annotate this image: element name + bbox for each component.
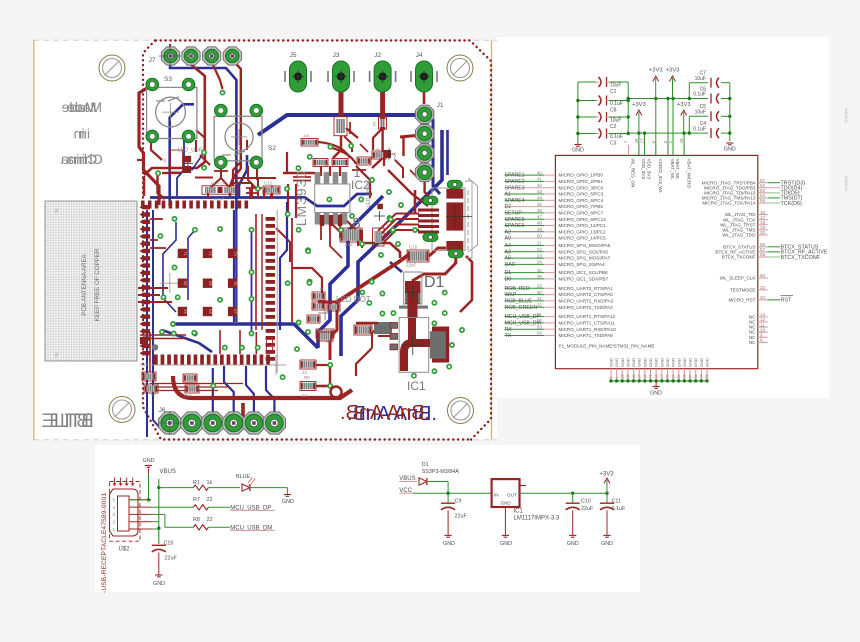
svg-text:GND: GND <box>601 541 613 547</box>
svg-text:0.1uF: 0.1uF <box>693 126 706 132</box>
wire red USB exit bundle <box>396 213 419 215</box>
svg-text:LM1117IMPX-3.3: LM1117IMPX-3.3 <box>514 516 560 522</box>
wire blue J1 inner <box>446 130 449 175</box>
svg-text:28: 28 <box>679 138 684 144</box>
capacitor bank right <box>688 83 690 99</box>
IC2 footprint <box>315 184 350 213</box>
svg-text:IC1: IC1 <box>407 379 426 393</box>
svg-text:MICRO_GPIO_6/PC4: MICRO_GPIO_6/PC4 <box>559 198 604 203</box>
IC1 footprint <box>432 327 449 363</box>
svg-text:SPARE6: SPARE6 <box>505 223 525 229</box>
pin 27 VDD_3V3 <box>644 145 646 155</box>
pin 31 RGB_BLUE <box>505 300 545 302</box>
svg-text:in: in <box>74 126 85 142</box>
capacitor C6 <box>689 98 708 100</box>
+3V3 supply arrows top <box>655 78 657 99</box>
svg-text:36: 36 <box>632 375 636 379</box>
wire red module bottom risers <box>219 330 221 354</box>
wire red left of IC2 <box>246 187 262 189</box>
svg-text:10uF: 10uF <box>695 76 706 82</box>
svg-text:C11: C11 <box>612 498 622 504</box>
wire red J7 pad4 down <box>233 60 241 169</box>
wire red middle drop <box>255 214 257 330</box>
pin 60 WL_SLEEP_CLK <box>758 277 768 279</box>
svg-text:22: 22 <box>537 247 543 252</box>
wire red J7 pad3 down <box>212 62 223 89</box>
svg-text:MICRO_UART2_TXD/PA2: MICRO_UART2_TXD/PA2 <box>559 305 614 310</box>
svg-text:C15: C15 <box>164 541 174 547</box>
svg-text:MICRO_GPIO_7/PB5: MICRO_GPIO_7/PB5 <box>559 204 604 209</box>
svg-text:S2: S2 <box>268 145 276 152</box>
svg-text:2: 2 <box>668 141 673 144</box>
svg-text:GND: GND <box>567 541 579 547</box>
svg-text:MICRO_GPIO_1/PB0: MICRO_GPIO_1/PB0 <box>559 173 604 178</box>
pin 40 SPARE1 <box>505 174 545 176</box>
diode D1 footprint <box>404 272 422 304</box>
wire blue S3 via run <box>170 104 194 206</box>
svg-text:44: 44 <box>537 196 543 201</box>
svg-text:C2: C2 <box>610 124 617 130</box>
svg-text:35: 35 <box>537 268 543 273</box>
svg-text:68: 68 <box>183 281 188 286</box>
pads J5 J3 J2 J4 <box>290 61 307 92</box>
pin 26 VDD_3V3 <box>638 145 640 155</box>
svg-text:42: 42 <box>537 183 543 188</box>
svg-text:MICRO_GPIO_12/PC1: MICRO_GPIO_12/PC1 <box>559 223 607 228</box>
svg-text:MICRO_GPIO_14/PC5: MICRO_GPIO_14/PC5 <box>559 236 607 241</box>
svg-text:GND: GND <box>614 358 619 367</box>
svg-text:20: 20 <box>760 230 766 235</box>
wire red C15 link <box>429 248 446 256</box>
mirrored silkscreen text bottom (blue layer) <box>347 403 437 425</box>
diode D1 <box>419 478 427 485</box>
pin 19 WL_JTAG_TMS <box>758 229 768 231</box>
svg-text:R7: R7 <box>193 497 200 503</box>
svg-text:0.1uF: 0.1uF <box>693 92 706 98</box>
svg-text:+3V3: +3V3 <box>666 68 680 74</box>
wire blue left pair <box>177 132 184 196</box>
pin 64 TX <box>505 335 545 337</box>
svg-text:MICRO_SPI1_SCK/PA5: MICRO_SPI1_SCK/PA5 <box>559 249 609 254</box>
svg-text:LM3930: LM3930 <box>293 170 309 227</box>
svg-text:1K: 1K <box>162 158 167 163</box>
svg-text:RGB_RED: RGB_RED <box>505 286 530 292</box>
wire red J3 to IC2 <box>333 136 341 158</box>
pin 44 SPARE4 <box>505 199 545 201</box>
PCB sheet frame yellow line left <box>33 40 35 440</box>
svg-text:47: 47 <box>660 375 664 379</box>
svg-text:4: 4 <box>615 377 619 379</box>
svg-text:MICRO_JTAG_TCK/PA14: MICRO_JTAG_TCK/PA14 <box>702 201 756 206</box>
svg-text:WL_JTAG_TDO: WL_JTAG_TDO <box>722 233 756 238</box>
svg-text:1: 1 <box>354 166 361 180</box>
PCB layout panel background <box>33 40 497 440</box>
pin 42 SPARE3 <box>505 187 545 189</box>
svg-text:MICRO_I2C1_SDA/PB7: MICRO_I2C1_SDA/PB7 <box>559 277 609 282</box>
pin 56 BTCX_STATUS <box>758 246 768 248</box>
wire red IC2 top-left pair <box>293 176 311 178</box>
svg-text:+3V3: +3V3 <box>649 68 663 74</box>
mounting hole H3 <box>109 397 135 423</box>
svg-text:TX: TX <box>505 333 512 339</box>
svg-text:40: 40 <box>537 170 543 175</box>
module bottom pad row <box>154 355 270 365</box>
svg-text:55: 55 <box>677 375 681 379</box>
svg-text:A5: A5 <box>505 256 511 262</box>
svg-text:D4(3V3): D4(3V3) <box>844 108 849 124</box>
svg-text:10uF: 10uF <box>183 393 193 398</box>
wire blue USB region diag <box>390 262 402 272</box>
svg-text:IC1: IC1 <box>514 509 524 515</box>
module outline <box>276 210 278 373</box>
svg-text:MICRO_UART1_RTS/PA12: MICRO_UART1_RTS/PA12 <box>559 314 616 319</box>
svg-text:27: 27 <box>640 138 645 144</box>
svg-text:67: 67 <box>233 309 238 314</box>
svg-text:DAC: DAC <box>505 262 516 268</box>
svg-text:C10: C10 <box>581 498 591 504</box>
bottom schematic panel background <box>95 445 640 592</box>
svg-text:VDDIO_3V3_WL: VDDIO_3V3_WL <box>658 159 663 194</box>
IC1 regulator <box>492 479 520 507</box>
svg-text:J4: J4 <box>416 52 423 59</box>
small components row <box>313 159 328 167</box>
connector J1 <box>415 105 433 123</box>
svg-text:MICRO_SPI1_MISO/PA6: MICRO_SPI1_MISO/PA6 <box>559 243 611 248</box>
pin 17 WL_JTAG_TCK <box>758 219 768 221</box>
wire red density zone A <box>195 140 197 152</box>
wire red right to IC1 <box>317 365 330 386</box>
svg-text:43: 43 <box>537 189 543 194</box>
svg-text:53: 53 <box>666 375 670 379</box>
pin 33 TESTMODE <box>758 289 768 291</box>
svg-text:MICRO_UART2_RXD/PA3: MICRO_UART2_RXD/PA3 <box>559 299 614 304</box>
svg-text:WL_SLEEP_CLK: WL_SLEEP_CLK <box>720 276 757 281</box>
pin 49 A2 <box>505 231 545 233</box>
wire red R8 links <box>316 364 330 366</box>
wire red usb to D1 <box>412 254 456 281</box>
svg-text:VBUS: VBUS <box>160 469 176 475</box>
pin 8 NC <box>758 341 768 343</box>
wire blue long diagonal 1 <box>341 130 442 356</box>
svg-text:MICRO_GPIO_8/PC7: MICRO_GPIO_8/PC7 <box>559 211 604 216</box>
svg-text:A1: A1 <box>505 192 511 198</box>
wire red right lower <box>460 256 472 312</box>
svg-text:22 uF: 22 uF <box>214 196 225 201</box>
svg-text:26: 26 <box>634 138 639 144</box>
svg-text:49: 49 <box>537 227 543 232</box>
PCB antenna keepout area <box>45 201 137 361</box>
module GND pins bottom <box>610 369 612 381</box>
capacitor bank left <box>577 82 579 142</box>
svg-text:MICRO_GPIO_9/PC13: MICRO_GPIO_9/PC13 <box>559 217 607 222</box>
capacitor C3 <box>578 133 596 135</box>
wire blue IC2 row <box>150 194 372 206</box>
USB receptacle dashed outline <box>110 482 140 542</box>
wire red module right cluster <box>292 268 322 294</box>
svg-text:LED_USR1: LED_USR1 <box>366 181 372 207</box>
+3V3 arrow right <box>683 112 685 133</box>
wire red top of IC2 region <box>263 190 265 199</box>
svg-text:R1: R1 <box>193 480 200 486</box>
svg-text:10uF: 10uF <box>610 83 621 89</box>
wire red bottom thin pair <box>140 334 186 336</box>
wire blue bottom left long <box>153 210 162 430</box>
capacitor C5 <box>689 115 708 117</box>
svg-text:J7: J7 <box>149 57 156 64</box>
svg-text:R8: R8 <box>304 375 310 380</box>
svg-text:GND: GND <box>500 541 512 547</box>
svg-text:22uF: 22uF <box>165 556 178 562</box>
USB shield ticks <box>114 478 116 486</box>
svg-text:GND: GND <box>693 358 698 367</box>
OUT rail <box>520 492 608 494</box>
wire red upper S2 link <box>221 160 230 196</box>
capacitor C15 footprint <box>407 250 429 262</box>
svg-text:75: 75 <box>54 352 59 357</box>
svg-text:23: 23 <box>537 253 543 258</box>
svg-text:47: 47 <box>537 214 543 219</box>
svg-text:MICRO_GPIO_2/PB1: MICRO_GPIO_2/PB1 <box>559 179 604 184</box>
pin 45 D2 <box>505 206 545 208</box>
capacitor C2 <box>578 116 596 118</box>
svg-text:D0: D0 <box>505 277 512 283</box>
svg-text:C12: C12 <box>264 181 273 186</box>
wire red mid-right diagonals <box>372 130 383 168</box>
svg-text:54: 54 <box>671 375 675 379</box>
pin 48 SPARE6 <box>505 225 545 227</box>
USB connector footprint <box>432 188 465 250</box>
svg-text:7: 7 <box>624 141 629 144</box>
wire blue J6 risers <box>212 368 214 423</box>
svg-text:76: 76 <box>54 208 59 213</box>
wire red thick diagonal to module <box>337 253 411 302</box>
svg-text:BTCX_TXCONF: BTCX_TXCONF <box>781 255 821 261</box>
svg-text:22: 22 <box>207 497 213 503</box>
svg-text:GND: GND <box>631 358 636 367</box>
R8 row <box>151 513 165 515</box>
wire red J7 pad1 riser <box>169 44 171 50</box>
svg-text:GND: GND <box>609 358 614 367</box>
capacitor C8 <box>578 100 596 102</box>
wire red J7pad4 elbow <box>233 150 241 186</box>
mounting hole H2 <box>447 55 473 81</box>
module top pad row <box>141 201 248 209</box>
svg-text:GND: GND <box>654 358 659 367</box>
pin 18 WL_JTAG_TRST <box>758 224 768 226</box>
power pad ring <box>331 387 342 398</box>
svg-text:TCK(D6): TCK(D6) <box>781 201 802 207</box>
pin 54 MICRO_JTAG_TMS/PA13 <box>758 197 768 199</box>
svg-text:33: 33 <box>760 285 766 290</box>
svg-text:25: 25 <box>626 375 630 379</box>
wire red bottom band 2 <box>243 403 275 420</box>
svg-text:A4: A4 <box>505 243 511 249</box>
mounting hole H4 <box>448 398 474 424</box>
svg-text:S3: S3 <box>164 76 172 83</box>
svg-text:RGB_BLUE: RGB_BLUE <box>505 299 533 305</box>
svg-text:D4(3V3): D4(3V3) <box>844 176 849 192</box>
svg-text:48: 48 <box>537 221 543 226</box>
C11 <box>606 493 608 503</box>
+3V3 arrow left <box>638 112 640 133</box>
resistor 10k <box>301 139 318 147</box>
svg-text:MICRO_UART2_CTS/PA0: MICRO_UART2_CTS/PA0 <box>559 292 614 297</box>
pin 55 MICRO_JTAG_TCK/PA14 <box>758 202 768 204</box>
svg-text:+3V3: +3V3 <box>677 102 691 108</box>
+3V3 output arrow <box>606 480 608 493</box>
svg-text:GND: GND <box>648 358 653 367</box>
svg-text:MICRO_GPIO_13/PC2: MICRO_GPIO_13/PC2 <box>559 229 607 234</box>
svg-text:GND: GND <box>282 499 294 505</box>
pin 3 VBAT_WL <box>667 145 669 155</box>
wire red module left entries <box>138 287 168 289</box>
svg-text:10uF: 10uF <box>695 110 706 116</box>
wire blue J7 bus <box>170 62 236 210</box>
svg-text:A2: A2 <box>505 229 511 235</box>
svg-text:SPARE2: SPARE2 <box>505 179 525 185</box>
C15 <box>152 544 166 546</box>
wire blue module diag 1 <box>163 222 176 312</box>
svg-text:69: 69 <box>208 281 213 286</box>
svg-text:56: 56 <box>683 375 687 379</box>
wire red density zone B <box>352 169 366 171</box>
svg-text:73: 73 <box>233 251 238 256</box>
wire red J3comp to J1 <box>346 128 358 138</box>
svg-text:22uF: 22uF <box>455 513 468 519</box>
svg-text:D1: D1 <box>424 274 445 291</box>
wire red module left stubs <box>150 218 163 220</box>
svg-text:C3: C3 <box>610 141 617 147</box>
wire red S3 S2 gap <box>196 130 205 138</box>
wire red J1 to usb <box>425 176 432 200</box>
svg-text:GND: GND <box>637 358 642 367</box>
svg-text:8: 8 <box>352 215 360 232</box>
svg-text:J6: J6 <box>159 407 166 414</box>
svg-text:0.1uF: 0.1uF <box>610 101 623 107</box>
wire red bottom band <box>173 376 352 398</box>
svg-text:A3: A3 <box>505 249 511 255</box>
svg-text:50: 50 <box>537 233 543 238</box>
svg-text:+3V3: +3V3 <box>632 102 646 108</box>
svg-text:46: 46 <box>537 208 543 213</box>
pin 36 D0 <box>505 278 545 280</box>
IC1 gnd <box>504 507 506 535</box>
svg-text:34: 34 <box>760 295 766 300</box>
svg-text:SS3P3-M3/84A: SS3P3-M3/84A <box>422 469 460 475</box>
svg-text:MICRO_UART1_RXD/PA10: MICRO_UART1_RXD/PA10 <box>559 327 617 332</box>
svg-text:63: 63 <box>537 324 543 329</box>
svg-text:MICRO_GPIO_3/PC0: MICRO_GPIO_3/PC0 <box>559 185 604 190</box>
svg-text:38: 38 <box>643 375 647 379</box>
svg-text:PCB ANTENNA AREA: PCB ANTENNA AREA <box>81 253 88 315</box>
pin 30 WKP <box>505 294 545 296</box>
switch S2 <box>214 116 262 161</box>
svg-text:72: 72 <box>208 251 213 256</box>
capacitor C1 <box>578 81 596 83</box>
wire red left edge <box>139 85 159 205</box>
svg-text:C9: C9 <box>455 498 462 504</box>
R1 1k row <box>159 487 194 489</box>
pin 21 A4 <box>505 245 545 247</box>
pin 23 A5 <box>505 257 545 259</box>
svg-text:62: 62 <box>537 318 543 323</box>
svg-text:1K: 1K <box>319 286 324 291</box>
svg-text:64: 64 <box>700 375 704 379</box>
svg-text:SETUP: SETUP <box>505 211 523 217</box>
module right pad column <box>266 217 275 361</box>
pin 20 WL_JTAG_TDO <box>758 234 768 236</box>
svg-text:VDD_3V3: VDD_3V3 <box>647 159 652 180</box>
svg-text:VDD_3V3: VDD_3V3 <box>641 159 646 180</box>
pin risers <box>638 133 640 155</box>
svg-text:WKP: WKP <box>505 292 517 298</box>
svg-text:GND: GND <box>153 581 165 587</box>
mirrored silkscreen text bottom (red layer) <box>340 402 430 424</box>
svg-text:45: 45 <box>649 375 653 379</box>
LED_USR cross <box>183 163 193 165</box>
wire red IC2 arcs <box>318 142 350 158</box>
3V3 rail wires <box>628 98 689 100</box>
capacitor C7 <box>689 82 708 84</box>
svg-text:MICRO_SPI1_SS/PA4: MICRO_SPI1_SS/PA4 <box>559 262 606 267</box>
svg-text:KEEP FREE OF COPPER: KEEP FREE OF COPPER <box>94 248 101 321</box>
svg-text:22: 22 <box>302 393 308 398</box>
wire red vert near 8 <box>361 230 363 248</box>
svg-text:C15: C15 <box>409 245 418 250</box>
pin 29 RGB_RED <box>505 287 545 289</box>
wire blue long diagonal 2 <box>318 196 383 348</box>
mirrored silkscreen text "BTLE" <box>41 411 93 432</box>
svg-text:MCU_USB_DM: MCU_USB_DM <box>505 321 541 327</box>
PCB panel dashed border top <box>33 39 497 41</box>
wire red bundle below S2 <box>234 177 276 179</box>
svg-text:24: 24 <box>537 260 543 265</box>
svg-text:RGB: RGB <box>393 152 397 160</box>
wire blue module right verticals <box>280 202 287 330</box>
svg-text:VBUS: VBUS <box>399 476 415 482</box>
svg-text:4: 4 <box>113 505 116 510</box>
comp 16 <box>267 339 273 352</box>
pin 5 VDDIO_3V3_WL <box>655 145 657 155</box>
svg-text:46: 46 <box>654 375 658 379</box>
bottom left cluster <box>140 337 147 344</box>
svg-text:0.1uF: 0.1uF <box>612 506 626 512</box>
svg-text:57: 57 <box>688 375 692 379</box>
C10 <box>572 493 574 503</box>
svg-text:RST: RST <box>781 298 792 304</box>
pin 62 MCU_USB_DM <box>505 322 545 324</box>
svg-text:U$2: U$2 <box>118 547 130 553</box>
svg-text:GND: GND <box>665 358 670 367</box>
wire red J7 pad2 down <box>144 60 205 175</box>
USB receptacle body <box>110 489 139 536</box>
pin 52 MICRO_JTAG_TDO/PB3 <box>758 187 768 189</box>
schematic sheet panel background <box>496 37 829 398</box>
svg-text:MICRO_UART2_RTS/PA1: MICRO_UART2_RTS/PA1 <box>559 286 614 291</box>
svg-text:60: 60 <box>760 273 766 278</box>
svg-text:GND: GND <box>625 358 630 367</box>
svg-text:R2: R2 <box>373 121 377 126</box>
svg-text:GND: GND <box>676 358 681 367</box>
module U1 body <box>555 155 757 368</box>
svg-text:29: 29 <box>537 284 543 289</box>
svg-text:R10: R10 <box>326 339 334 344</box>
svg-text:VBAT_MICRO: VBAT_MICRO <box>686 159 691 189</box>
pin 47 SPARE5 <box>505 218 545 220</box>
svg-text:10uF: 10uF <box>344 242 354 247</box>
svg-text:GND: GND <box>501 500 512 505</box>
pin 12 NC <box>758 321 768 323</box>
